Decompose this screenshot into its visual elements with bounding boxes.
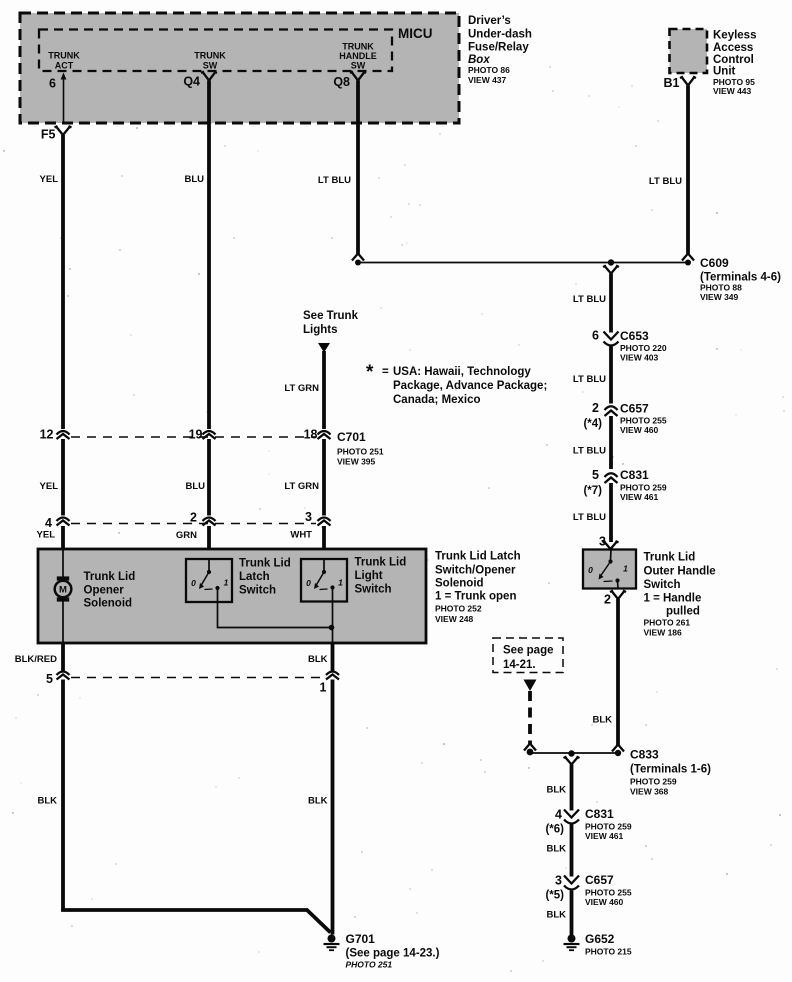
svg-text:M: M — [59, 585, 67, 596]
connector fork Q8 — [350, 72, 366, 81]
svg-text:1: 1 — [224, 578, 229, 588]
svg-text:VIEW 460: VIEW 460 — [585, 897, 624, 907]
svg-text:PHOTO 259: PHOTO 259 — [620, 483, 667, 493]
svg-text:1 = Handle: 1 = Handle — [644, 593, 702, 605]
dashed connector line 5-1 — [71, 677, 325, 679]
box caption Driver's Under-dash Fuse/Relay Box — [468, 15, 532, 85]
svg-text:PHOTO 251: PHOTO 251 — [337, 447, 384, 457]
connector fork B1 — [680, 77, 696, 86]
handle switch internals — [599, 550, 620, 589]
svg-text:(See page 14-23.): (See page 14-23.) — [346, 948, 440, 960]
connector symbol 19 at C701 — [203, 431, 216, 439]
svg-text:LT BLU: LT BLU — [573, 294, 606, 305]
svg-text:6: 6 — [592, 329, 599, 343]
svg-text:PHOTO 86: PHOTO 86 — [468, 65, 510, 75]
trunk lid latch switch inner box — [186, 559, 232, 602]
svg-text:PHOTO 255: PHOTO 255 — [585, 888, 632, 898]
svg-text:Driver’s: Driver’s — [468, 15, 511, 27]
svg-text:VIEW 460: VIEW 460 — [620, 425, 659, 435]
wire C833 horizontal bus — [530, 752, 618, 754]
svg-text:C657: C657 — [585, 873, 614, 887]
svg-text:Latch: Latch — [239, 571, 270, 583]
svg-text:VIEW 461: VIEW 461 — [620, 492, 659, 502]
caption Trunk Lid Opener Solenoid — [84, 571, 136, 610]
connector label C653 — [620, 329, 667, 363]
connector symbol C657 lower — [564, 876, 579, 890]
connector label C609 — [700, 256, 781, 302]
svg-text:2: 2 — [604, 593, 611, 607]
svg-text:Trunk Lid: Trunk Lid — [84, 571, 136, 583]
svg-text:VIEW 368: VIEW 368 — [630, 787, 669, 797]
svg-text:3: 3 — [555, 874, 562, 888]
svg-text:G652: G652 — [585, 932, 615, 946]
trunk lid latch switch / opener solenoid component box — [38, 549, 426, 643]
connector fork below C833 junction — [564, 757, 580, 765]
svg-text:Package, Advance Package;: Package, Advance Package; — [393, 380, 547, 392]
svg-text:18: 18 — [304, 428, 318, 442]
svg-text:=: = — [382, 366, 389, 378]
connector fork Q4 — [201, 72, 217, 81]
ground G652 — [564, 935, 580, 951]
svg-text:HANDLE: HANDLE — [339, 51, 377, 61]
wire LT BLU from C657 to C831 — [609, 416, 613, 469]
svg-text:BLK/RED: BLK/RED — [15, 654, 57, 665]
svg-text:0: 0 — [191, 578, 196, 588]
svg-text:C701: C701 — [337, 430, 366, 444]
wire LT BLU from C653 to C657 — [609, 347, 613, 404]
connector label C657 lower — [585, 873, 632, 907]
svg-text:VIEW 349: VIEW 349 — [700, 292, 739, 302]
svg-text:YEL: YEL — [40, 174, 59, 185]
connector symbol C831 — [605, 473, 618, 483]
svg-text:PHOTO 88: PHOTO 88 — [700, 283, 742, 293]
node dot left end C833 — [527, 749, 534, 756]
junction dot inside component box — [329, 625, 335, 631]
svg-text:(*6): (*6) — [545, 824, 564, 836]
svg-text:Solenoid: Solenoid — [84, 598, 133, 610]
svg-text:G701: G701 — [346, 932, 376, 946]
wire BLK from handle switch — [616, 599, 620, 746]
ground label G701 — [346, 932, 440, 970]
svg-text:6: 6 — [49, 77, 56, 91]
svg-text:LT BLU: LT BLU — [318, 175, 351, 186]
svg-text:2: 2 — [592, 401, 599, 415]
svg-text:1: 1 — [623, 564, 628, 574]
svg-text:TRUNK: TRUNK — [342, 42, 374, 52]
svg-text:BLK: BLK — [546, 910, 566, 921]
svg-text:Control: Control — [713, 54, 754, 66]
connector end chevron at handle switch wire — [612, 745, 624, 752]
svg-text:19: 19 — [189, 428, 203, 442]
connector fork below C609 junction — [603, 266, 619, 274]
svg-text:3: 3 — [305, 510, 312, 524]
svg-text:LT BLU: LT BLU — [573, 512, 606, 523]
svg-text:BLK: BLK — [546, 844, 566, 855]
connector end chevron at Q8 wire — [352, 254, 364, 261]
dashed connector line C701 — [71, 436, 316, 438]
trunk lid outer handle switch box — [583, 550, 636, 589]
svg-text:(Terminals 1-6): (Terminals 1-6) — [630, 764, 711, 776]
pin 6 internal wire with up arrow — [61, 73, 67, 124]
svg-text:TRUNK: TRUNK — [194, 51, 226, 61]
arrow from note box — [524, 680, 537, 692]
svg-text:pulled: pulled — [666, 606, 700, 618]
svg-text:BLU: BLU — [185, 481, 205, 492]
svg-text:4: 4 — [45, 516, 52, 530]
svg-text:PHOTO 259: PHOTO 259 — [630, 777, 677, 787]
svg-text:LT BLU: LT BLU — [649, 176, 682, 187]
light switch internals — [314, 559, 335, 602]
svg-text:Under-dash: Under-dash — [468, 29, 532, 41]
svg-text:C609: C609 — [700, 256, 729, 270]
svg-text:GRN: GRN — [176, 530, 197, 541]
connector symbol 4 — [57, 518, 70, 526]
wire LT GRN mid segment — [322, 439, 326, 516]
latch switch internals — [199, 559, 220, 602]
svg-text:Trunk Lid Latch: Trunk Lid Latch — [435, 551, 521, 563]
connector symbol C653 — [604, 332, 619, 346]
wire C609 horizontal bus — [358, 262, 688, 264]
note See Trunk Lights — [303, 310, 359, 336]
svg-text:Outer Handle: Outer Handle — [644, 566, 716, 578]
wire BLK below component box right — [331, 643, 335, 672]
svg-text:BLK: BLK — [308, 654, 328, 665]
svg-text:5: 5 — [592, 468, 599, 482]
MICU inner dashed box — [39, 30, 392, 72]
svg-text:C831: C831 — [585, 807, 614, 821]
svg-text:0: 0 — [306, 578, 311, 588]
svg-text:1 = Trunk open: 1 = Trunk open — [435, 591, 516, 603]
svg-text:*: * — [366, 362, 374, 383]
motor/solenoid M symbol — [55, 576, 72, 601]
svg-text:BLK: BLK — [592, 715, 612, 726]
connector symbol C831 lower — [564, 810, 579, 824]
wire BLK to ground G652 — [570, 891, 574, 936]
connector symbol 2 — [203, 518, 216, 526]
svg-text:VIEW 186: VIEW 186 — [644, 628, 683, 638]
pin label TRUNK SW — [194, 51, 226, 71]
svg-text:VIEW 443: VIEW 443 — [713, 86, 752, 96]
wire BLK from C831 to C657 — [570, 825, 574, 877]
svg-text:VIEW 437: VIEW 437 — [468, 75, 507, 85]
connector end chevron at dashed wire — [524, 744, 536, 751]
svg-text:Q4: Q4 — [183, 75, 200, 89]
svg-text:Trunk Lid: Trunk Lid — [644, 552, 696, 564]
footnote asterisk legend — [366, 362, 547, 406]
note box See page 14-21 — [493, 638, 563, 673]
junction dot C609 branch — [608, 259, 614, 265]
svg-text:VIEW 403: VIEW 403 — [620, 353, 659, 363]
svg-text:Switch: Switch — [644, 579, 681, 591]
connector symbol 18 at C701 — [318, 431, 331, 439]
connector fork 3 at handle switch — [603, 541, 619, 549]
wire BLK/RED below component box — [61, 643, 65, 672]
svg-text:4: 4 — [555, 808, 562, 822]
svg-text:Keyless: Keyless — [713, 30, 756, 42]
svg-text:PHOTO 251: PHOTO 251 — [346, 960, 393, 970]
connector symbol 5 — [57, 672, 70, 680]
wire LT BLU from C609 to C653 — [609, 274, 613, 333]
box caption Trunk Lid Latch Switch/Opener Solenoid — [435, 551, 521, 625]
wire LT BLU from C831 to handle switch — [609, 483, 613, 542]
wire Q4 BLU upper segment — [207, 81, 211, 430]
svg-text:(*4): (*4) — [583, 418, 602, 430]
wire trunk lights LT GRN segment — [322, 351, 326, 429]
svg-text:C831: C831 — [620, 468, 649, 482]
caption Trunk Lid Light Switch — [355, 557, 407, 596]
svg-text:Q8: Q8 — [333, 75, 350, 89]
wire BLU mid segment — [207, 439, 211, 516]
svg-text:VIEW 248: VIEW 248 — [435, 614, 474, 624]
svg-text:PHOTO 220: PHOTO 220 — [620, 343, 667, 353]
svg-text:VIEW 395: VIEW 395 — [337, 457, 376, 467]
junction dot C833 middle — [568, 750, 574, 756]
connector end chevron at B1 wire — [682, 254, 694, 261]
svg-text:F5: F5 — [41, 128, 56, 142]
svg-text:Lights: Lights — [303, 324, 338, 336]
svg-text:PHOTO 255: PHOTO 255 — [620, 416, 667, 426]
svg-text:2: 2 — [190, 511, 197, 525]
trunk lid light switch inner box — [301, 559, 347, 602]
connector fork 2 — [610, 591, 626, 600]
connector label C833 — [630, 748, 711, 797]
ground label G652 — [585, 932, 632, 957]
svg-text:Unit: Unit — [713, 66, 736, 78]
wire YEL mid segment — [61, 439, 65, 516]
dashed connector line 4-2-3 — [71, 523, 316, 525]
svg-text:SW: SW — [203, 61, 218, 71]
svg-text:USA: Hawaii, Technology: USA: Hawaii, Technology — [393, 366, 531, 378]
note text See page 14-21 — [503, 645, 554, 672]
svg-text:See Trunk: See Trunk — [303, 310, 359, 322]
wire Q8 LT BLU segment — [356, 81, 360, 255]
pin label TRUNK HANDLE SW — [339, 42, 377, 71]
connector label C657 — [620, 402, 667, 436]
svg-text:Switch: Switch — [355, 584, 392, 596]
svg-text:Solenoid: Solenoid — [435, 578, 484, 590]
light switch output wire — [332, 602, 334, 644]
node dot right end of C609 bus — [685, 260, 691, 266]
box caption Keyless Access Control Unit — [713, 30, 756, 97]
svg-text:VIEW 461: VIEW 461 — [585, 831, 624, 841]
wire BLK from C833 to C831 — [570, 765, 574, 811]
svg-text:Opener: Opener — [84, 585, 125, 597]
svg-text:BLU: BLU — [184, 174, 204, 185]
svg-text:Switch/Opener: Switch/Opener — [435, 565, 516, 577]
node dot left end of C609 bus — [355, 260, 361, 266]
svg-text:(*7): (*7) — [583, 485, 602, 497]
svg-text:YEL: YEL — [37, 530, 56, 541]
svg-text:B1: B1 — [664, 76, 680, 90]
wire bottom run to ground — [63, 909, 331, 933]
fuse/relay box (MICU) outer dashed box — [20, 13, 459, 123]
connector label C701 — [337, 430, 384, 467]
svg-text:Switch: Switch — [239, 585, 276, 597]
pin label TRUNK ACT — [48, 51, 80, 71]
svg-text:YEL: YEL — [40, 481, 59, 492]
solenoid feed wire — [62, 549, 64, 578]
svg-text:BLK: BLK — [308, 796, 328, 807]
svg-text:LT GRN: LT GRN — [284, 481, 319, 492]
svg-text:0: 0 — [588, 565, 593, 575]
svg-text:ACT: ACT — [55, 61, 74, 71]
svg-text:Canada; Mexico: Canada; Mexico — [393, 394, 481, 406]
latch switch output wire to junction — [218, 602, 332, 628]
solenoid output wire — [62, 600, 64, 643]
wire BLK long right — [331, 680, 335, 935]
svg-text:Light: Light — [355, 570, 383, 582]
wire YEL into component box — [61, 526, 65, 549]
svg-text:12: 12 — [40, 428, 54, 442]
svg-text:C833: C833 — [630, 748, 659, 762]
wire GRN into component box — [207, 526, 211, 559]
svg-text:TRUNK: TRUNK — [48, 51, 80, 61]
svg-text:1: 1 — [320, 681, 327, 695]
wire F5 YEL upper segment — [61, 135, 65, 429]
svg-text:(*5): (*5) — [545, 890, 564, 902]
svg-text:LT GRN: LT GRN — [284, 383, 319, 394]
connector symbol 3 — [318, 518, 331, 526]
connector symbol 12 at C701 — [57, 431, 70, 439]
svg-text:C653: C653 — [620, 329, 649, 343]
caption Trunk Lid Latch Switch — [239, 558, 291, 597]
svg-text:PHOTO 215: PHOTO 215 — [585, 947, 632, 957]
ground G701 — [324, 935, 340, 951]
svg-text:MICU: MICU — [398, 26, 433, 41]
svg-text:PHOTO 252: PHOTO 252 — [435, 604, 482, 614]
connector fork F5 — [55, 126, 72, 135]
svg-text:LT BLU: LT BLU — [573, 446, 606, 457]
svg-text:PHOTO 261: PHOTO 261 — [644, 618, 691, 628]
svg-text:BLK: BLK — [37, 796, 57, 807]
svg-text:5: 5 — [46, 672, 53, 686]
arrow from trunk lights — [318, 343, 330, 353]
svg-text:1: 1 — [338, 578, 343, 588]
svg-text:Trunk Lid: Trunk Lid — [355, 557, 407, 569]
wire B1 LT BLU segment — [686, 86, 690, 255]
wire BLK long left — [61, 680, 65, 911]
svg-text:Fuse/Relay: Fuse/Relay — [468, 42, 529, 54]
box caption Trunk Lid Outer Handle Switch — [644, 552, 716, 638]
svg-text:PHOTO 259: PHOTO 259 — [585, 822, 632, 832]
svg-text:Trunk Lid: Trunk Lid — [239, 558, 291, 570]
svg-text:SW: SW — [351, 61, 366, 71]
svg-text:LT BLU: LT BLU — [573, 374, 606, 385]
svg-text:Access: Access — [713, 42, 753, 54]
node dot right end C833 — [615, 750, 621, 756]
wire WHT into component box — [322, 526, 326, 559]
svg-text:WHT: WHT — [290, 530, 312, 541]
connector label C831 lower — [585, 807, 632, 841]
connector symbol C657 — [605, 406, 618, 416]
dashed wire from note — [528, 691, 532, 744]
svg-text:C657: C657 — [620, 402, 649, 416]
svg-text:BLK: BLK — [546, 785, 566, 796]
svg-text:14-21.: 14-21. — [503, 659, 536, 671]
svg-text:See page: See page — [503, 645, 554, 657]
connector label C831 — [620, 468, 667, 502]
keyless access control unit box — [670, 29, 708, 73]
connector symbol 1 — [326, 672, 339, 680]
